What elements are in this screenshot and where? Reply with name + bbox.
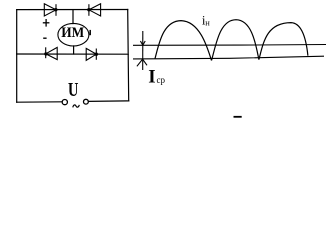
plus sign polarity mark xyxy=(43,19,50,27)
time axis line xyxy=(133,56,324,59)
source terminal circle right xyxy=(84,99,89,104)
arrowhead down at Icp line xyxy=(140,41,145,45)
diode VD2 middle-left (pointing left) xyxy=(46,47,58,59)
junction dot at VD3 cathode xyxy=(87,8,90,11)
svg-text:I: I xyxy=(148,67,155,88)
wire: top wire of bridge xyxy=(17,9,128,11)
source terminal circle left xyxy=(62,100,67,105)
svg-text:U: U xyxy=(68,79,78,101)
diode VD1 top-left (pointing right) xyxy=(44,4,56,16)
wire: right edge of bridge box xyxy=(128,10,129,101)
wire: stub from meter down to middle wire xyxy=(73,46,75,54)
dimension line for Icp xyxy=(142,31,144,70)
junction dot at VD1 cathode xyxy=(54,8,57,11)
AC tilde mark xyxy=(73,105,80,108)
wire: bottom right segment from source terminal xyxy=(88,100,128,103)
junction dot at VD2 cathode xyxy=(44,52,47,55)
minus sign polarity mark xyxy=(43,37,46,39)
arrowhead up at axis xyxy=(137,59,147,66)
wire: stub from top wire down to meter xyxy=(72,10,74,24)
wire: left edge of bridge box xyxy=(16,10,18,103)
svg-text:н: н xyxy=(205,17,210,27)
caption dash xyxy=(234,116,242,118)
meter ИМ ellipse xyxy=(58,23,89,46)
svg-text:ИМ: ИМ xyxy=(61,25,84,41)
diode VD4 middle-right (pointing right) xyxy=(86,48,96,60)
junction dot at VD4 cathode xyxy=(95,53,98,56)
current hump 1 xyxy=(155,21,212,61)
Icp level line xyxy=(133,44,326,47)
wire: bottom left segment to source terminal xyxy=(17,101,62,103)
small tick right of meter xyxy=(89,30,91,35)
wire: middle wire of bridge xyxy=(17,53,129,55)
current hump 3 xyxy=(259,23,308,60)
current hump 2 xyxy=(212,20,259,61)
diode VD3 top-right (pointing left) xyxy=(89,4,101,16)
svg-text:ср: ср xyxy=(157,75,166,85)
